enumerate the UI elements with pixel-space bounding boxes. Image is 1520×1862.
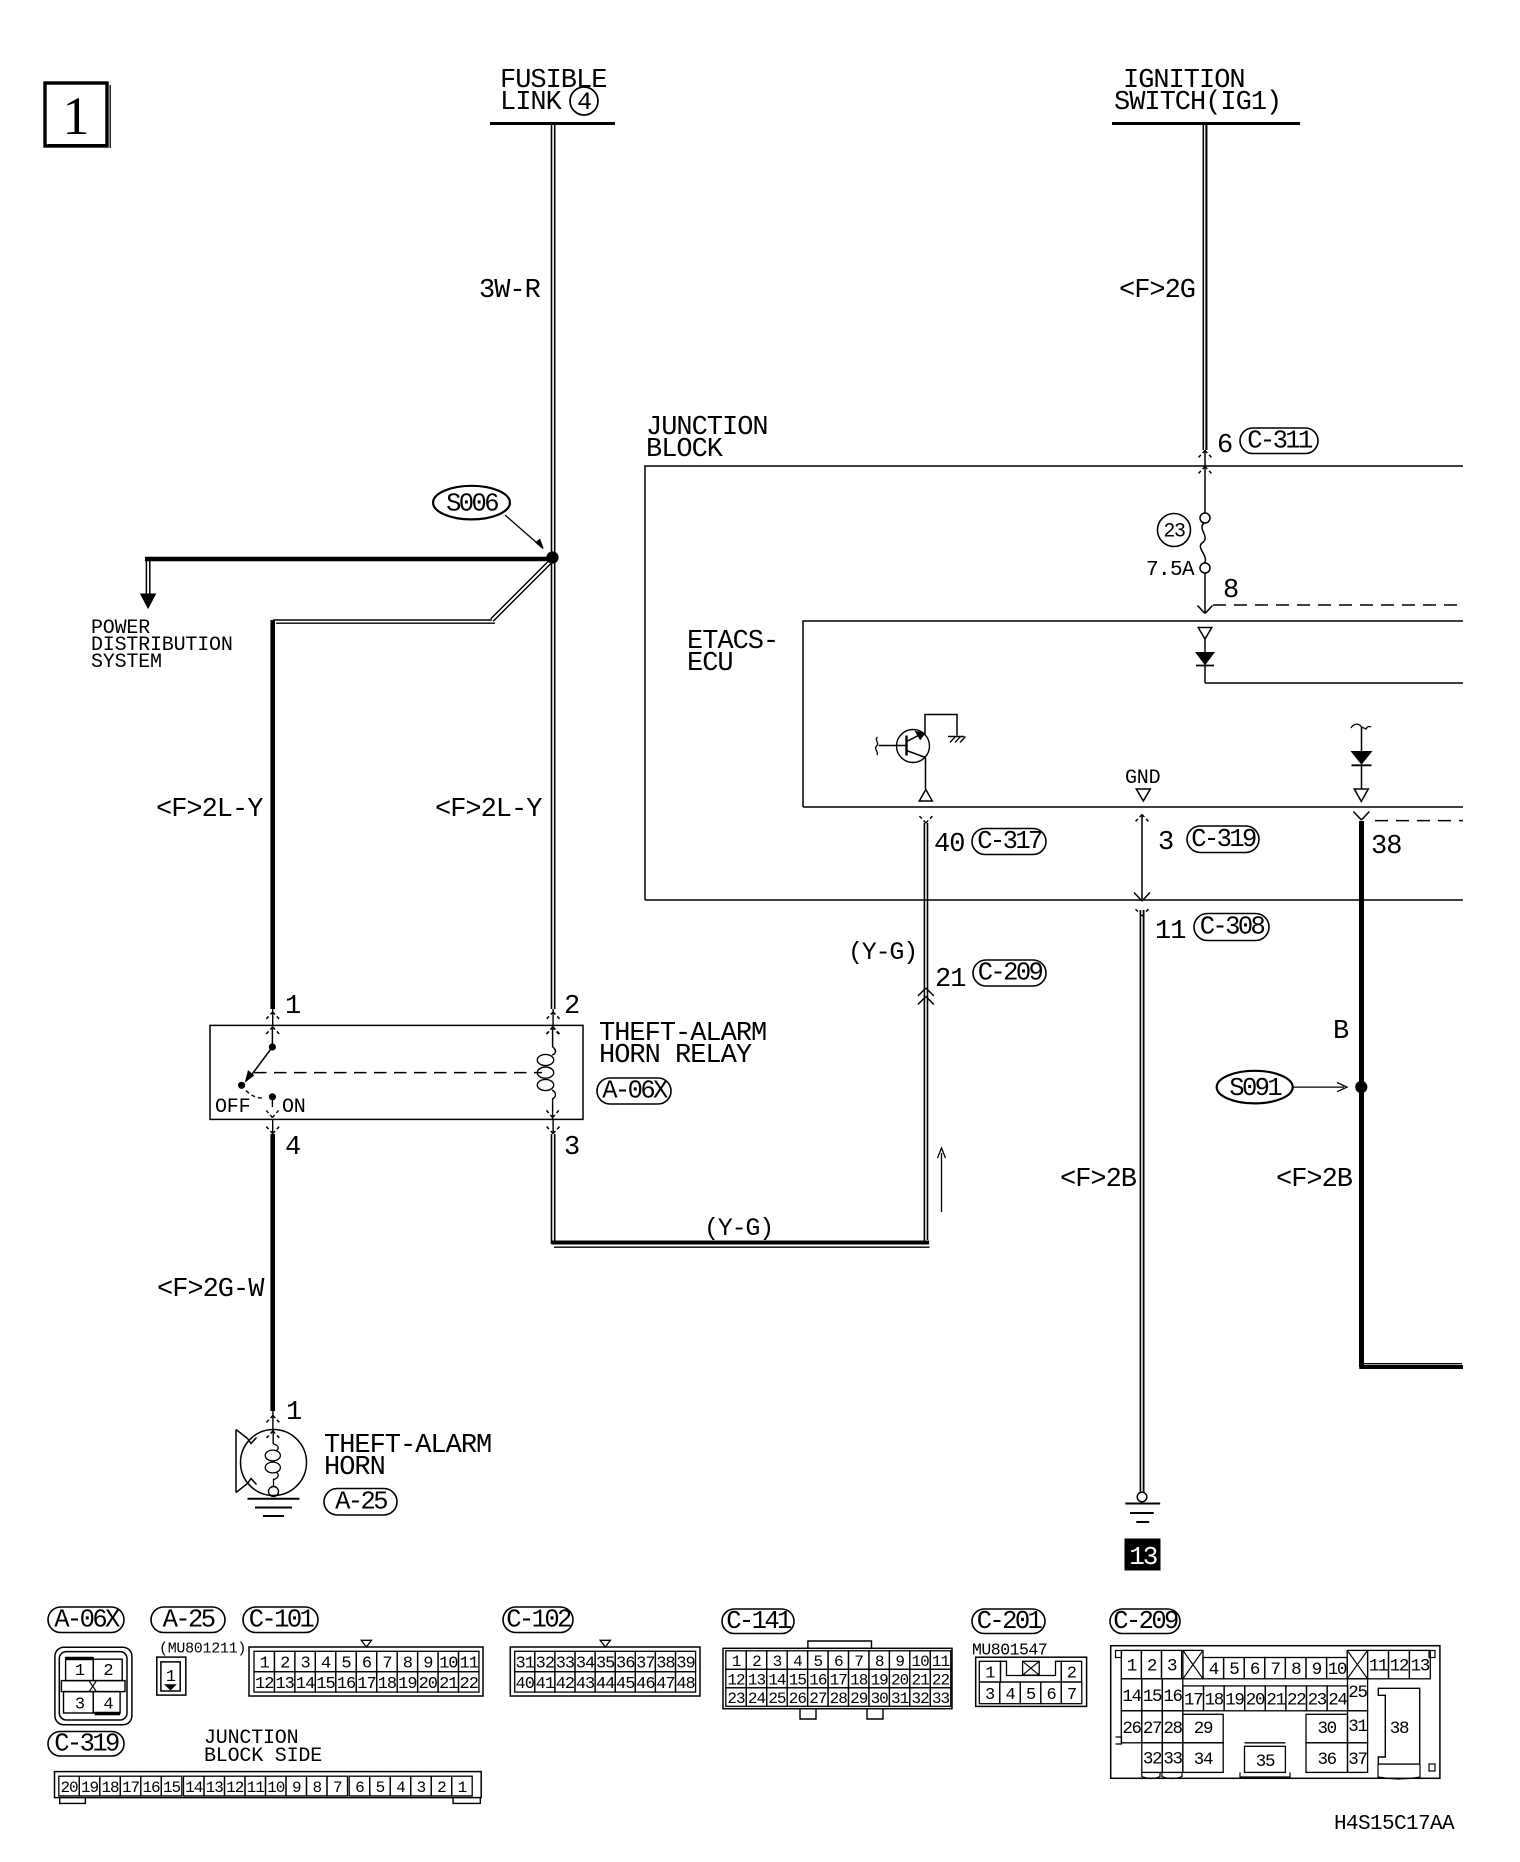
- svg-text:21: 21: [935, 965, 965, 995]
- ETACS-ECU label: [687, 627, 778, 679]
- svg-text:3: 3: [75, 1696, 85, 1715]
- svg-text:38: 38: [656, 1655, 675, 1674]
- connector C-319 stadium: [1187, 826, 1259, 853]
- svg-text:30: 30: [1317, 1719, 1336, 1739]
- svg-text:10: 10: [439, 1655, 458, 1674]
- ground G1 under C-308 wire: [1125, 1492, 1160, 1522]
- svg-text:C-209: C-209: [1113, 1607, 1178, 1636]
- theft-alarm horn relay label: [599, 1019, 766, 1071]
- svg-text:2: 2: [103, 1662, 112, 1681]
- svg-text:10: 10: [911, 1653, 929, 1671]
- svg-text:3: 3: [1167, 1657, 1177, 1677]
- svg-text:17: 17: [357, 1675, 375, 1694]
- svg-text:36: 36: [616, 1655, 635, 1674]
- svg-text:15: 15: [163, 1779, 181, 1797]
- svg-text:20: 20: [419, 1675, 438, 1694]
- connector C-141 drawing: [723, 1641, 952, 1719]
- svg-text:6: 6: [362, 1655, 372, 1674]
- transistor collector wire to chassis ground: [925, 715, 966, 743]
- svg-text:5: 5: [814, 1653, 823, 1671]
- connector A-25 stadium at horn: [324, 1489, 397, 1516]
- svg-text:7: 7: [333, 1779, 342, 1797]
- svg-text:18: 18: [378, 1675, 397, 1694]
- svg-text:11: 11: [247, 1779, 265, 1797]
- svg-text:(Y-G): (Y-G): [704, 1214, 773, 1243]
- pin 40 crossing chevron: [918, 815, 926, 824]
- connector C-209 crossing double chevron: [918, 988, 934, 1005]
- svg-text:5: 5: [1026, 1686, 1036, 1705]
- connector label C-102 stadium: [503, 1607, 573, 1633]
- svg-text:10: 10: [267, 1779, 285, 1797]
- ignition switch bus bar: [1112, 122, 1300, 125]
- svg-text:33: 33: [932, 1690, 950, 1708]
- svg-text:23: 23: [727, 1690, 745, 1708]
- svg-text:1: 1: [732, 1653, 741, 1671]
- theft-alarm horn label: [324, 1431, 491, 1483]
- svg-text:1: 1: [285, 992, 300, 1022]
- svg-text:22: 22: [460, 1675, 478, 1694]
- connector label C-101 stadium: [243, 1607, 318, 1633]
- svg-text:37: 37: [636, 1655, 654, 1674]
- svg-text:6: 6: [355, 1779, 364, 1797]
- theft-alarm horn relay box: [210, 1025, 583, 1119]
- svg-text:1: 1: [260, 1655, 270, 1674]
- svg-text:3W-R: 3W-R: [479, 276, 541, 306]
- svg-text:7: 7: [1067, 1686, 1076, 1705]
- svg-text:1: 1: [75, 1662, 85, 1681]
- connector C-319 junction block side drawing: [55, 1772, 482, 1804]
- svg-text:1: 1: [63, 86, 90, 146]
- svg-text:6: 6: [834, 1653, 843, 1671]
- svg-text:22: 22: [932, 1672, 950, 1690]
- svg-text:3: 3: [1158, 828, 1173, 858]
- wire (F)2L-Y thick left branch to relay pin 1: [270, 620, 275, 1009]
- svg-text:SWITCH(IG1): SWITCH(IG1): [1114, 88, 1281, 118]
- relay pin 1 crossing chevrons: [265, 1009, 281, 1036]
- connector label C-201 stadium: [972, 1609, 1045, 1634]
- fuse 23 circle label: [1158, 514, 1191, 547]
- pin 38 output triangle: [1354, 789, 1368, 802]
- connector label A-06X stadium: [48, 1607, 124, 1633]
- svg-text:C-319: C-319: [54, 1729, 119, 1758]
- svg-text:32: 32: [536, 1655, 554, 1674]
- dashed line at pin 8: [1213, 604, 1463, 606]
- horizontal double wire to left branch: [273, 620, 495, 623]
- junction block side label: [204, 1727, 322, 1768]
- theft-alarm horn symbol: [236, 1430, 307, 1497]
- ignition switch label: [1114, 66, 1281, 118]
- svg-text:21: 21: [1266, 1690, 1285, 1710]
- svg-text:C-209: C-209: [978, 959, 1043, 988]
- splice S091: [1217, 1071, 1347, 1104]
- svg-text:6: 6: [1217, 431, 1232, 461]
- svg-text:1: 1: [1127, 1657, 1137, 1677]
- svg-text:28: 28: [830, 1690, 848, 1708]
- svg-text:35: 35: [596, 1655, 615, 1674]
- svg-text:2: 2: [752, 1653, 761, 1671]
- connector C-209 drawing: [1111, 1646, 1440, 1779]
- svg-text:4: 4: [285, 1133, 300, 1163]
- svg-text:26: 26: [789, 1690, 807, 1708]
- svg-text:5: 5: [341, 1655, 351, 1674]
- svg-text:25: 25: [768, 1690, 786, 1708]
- junction block label: [646, 413, 768, 465]
- svg-text:29: 29: [1194, 1719, 1213, 1739]
- svg-text:8: 8: [403, 1655, 413, 1674]
- svg-text:(MU801211): (MU801211): [159, 1641, 246, 1658]
- svg-text:7: 7: [1270, 1660, 1280, 1680]
- svg-text:30: 30: [871, 1690, 889, 1708]
- svg-text:16: 16: [809, 1672, 827, 1690]
- wire (Y-G) horizontal run: [552, 1243, 930, 1248]
- svg-text:BLOCK: BLOCK: [646, 435, 724, 465]
- svg-text:HORN RELAY: HORN RELAY: [599, 1041, 752, 1071]
- connector A-06X stadium at relay: [597, 1078, 671, 1104]
- connector label C-141 stadium: [722, 1609, 794, 1634]
- svg-text:34: 34: [1194, 1750, 1213, 1770]
- C-319 pass-through arrow pin 3: [1134, 815, 1150, 917]
- svg-text:4: 4: [396, 1779, 405, 1797]
- svg-text:15: 15: [316, 1675, 335, 1694]
- svg-text:C-317: C-317: [977, 827, 1042, 856]
- connector label A-25 stadium: [151, 1607, 225, 1633]
- svg-text:14: 14: [1122, 1687, 1141, 1707]
- relay coil: [537, 1025, 555, 1119]
- connector C-308 stadium: [1194, 914, 1269, 941]
- connector A-06X drawing: [55, 1647, 132, 1725]
- svg-text:11: 11: [1369, 1657, 1388, 1677]
- svg-text:B: B: [1333, 1017, 1349, 1047]
- svg-text:C-308: C-308: [1200, 913, 1265, 942]
- svg-text:18: 18: [101, 1779, 119, 1797]
- svg-text:BLOCK SIDE: BLOCK SIDE: [204, 1745, 322, 1768]
- svg-text:19: 19: [1225, 1690, 1244, 1710]
- svg-text:23: 23: [1308, 1690, 1327, 1710]
- junction dot at S091: [1356, 1081, 1367, 1092]
- wire (F)2G ignition to junction block: [1203, 125, 1206, 513]
- svg-text:47: 47: [656, 1675, 674, 1694]
- svg-text:16: 16: [337, 1675, 356, 1694]
- svg-text:2: 2: [1067, 1665, 1076, 1684]
- wire 3W-R from fusible link to S006 and relay pin 2: [552, 125, 555, 1009]
- svg-text:8: 8: [312, 1779, 321, 1797]
- junction block box: [645, 466, 1463, 900]
- fuse output line with arrow into ETACS: [1198, 573, 1213, 614]
- svg-text:1: 1: [286, 1398, 301, 1428]
- svg-text:5: 5: [1229, 1660, 1239, 1680]
- svg-text:12: 12: [255, 1675, 273, 1694]
- svg-text:4: 4: [1209, 1660, 1219, 1680]
- svg-text:(Y-G): (Y-G): [848, 938, 917, 967]
- GND output triangle: [1136, 789, 1150, 801]
- svg-text:14: 14: [185, 1779, 203, 1797]
- svg-text:20: 20: [1246, 1690, 1265, 1710]
- svg-text:S091: S091: [1229, 1074, 1282, 1103]
- svg-text:32: 32: [911, 1690, 929, 1708]
- svg-text:37: 37: [1348, 1750, 1367, 1770]
- svg-text:8: 8: [1291, 1660, 1301, 1680]
- svg-text:19: 19: [871, 1672, 889, 1690]
- svg-text:5: 5: [376, 1779, 385, 1797]
- svg-text:16: 16: [1163, 1687, 1182, 1707]
- svg-text:10: 10: [1328, 1660, 1347, 1680]
- svg-text:4: 4: [1005, 1686, 1015, 1705]
- svg-text:38: 38: [1390, 1719, 1409, 1739]
- svg-text:25: 25: [1348, 1683, 1367, 1703]
- svg-text:3: 3: [301, 1655, 311, 1674]
- svg-text:<F>2G-W: <F>2G-W: [157, 1275, 265, 1305]
- relay pin 3 crossing chevron: [545, 1120, 561, 1135]
- svg-text:44: 44: [596, 1675, 615, 1694]
- svg-text:3: 3: [985, 1686, 995, 1705]
- svg-text:24: 24: [1328, 1690, 1347, 1710]
- svg-text:3: 3: [564, 1133, 579, 1163]
- svg-text:2: 2: [437, 1779, 446, 1797]
- wire from diode D1 to right edge: [1205, 682, 1463, 684]
- svg-text:39: 39: [676, 1655, 695, 1674]
- pin 38 crossing chevron: [1353, 812, 1361, 821]
- svg-text:9: 9: [895, 1653, 904, 1671]
- svg-text:13: 13: [748, 1672, 766, 1690]
- connector C-201 drawing: [972, 1641, 1087, 1707]
- svg-text:46: 46: [636, 1675, 655, 1694]
- svg-text:2: 2: [564, 992, 579, 1022]
- svg-text:2: 2: [280, 1655, 289, 1674]
- svg-text:C-141: C-141: [726, 1607, 792, 1636]
- svg-text:38: 38: [1371, 832, 1401, 862]
- svg-text:9: 9: [292, 1779, 301, 1797]
- flow direction arrow near C-209 wire: [938, 1148, 946, 1212]
- wire (F)2B ground wire C-308: [1140, 910, 1143, 1492]
- fusible link label: [500, 66, 606, 118]
- wire (Y-G) relay pin 3 verticals: [552, 1134, 555, 1244]
- svg-text:42: 42: [556, 1675, 574, 1694]
- wire (Y-G) pin 40 to relay pin 3, vertical run: [924, 823, 927, 1243]
- connector A-25 drawing: [157, 1641, 246, 1696]
- svg-text:4: 4: [793, 1653, 802, 1671]
- svg-text:43: 43: [576, 1675, 595, 1694]
- connector C-101 drawing: [249, 1640, 483, 1696]
- svg-text:HORN: HORN: [324, 1453, 385, 1483]
- svg-text:C-311: C-311: [1247, 426, 1313, 455]
- pin 8 input triangle: [1198, 628, 1212, 640]
- svg-text:4: 4: [321, 1655, 331, 1674]
- svg-text:32: 32: [1143, 1750, 1162, 1770]
- svg-text:11: 11: [1155, 917, 1185, 947]
- svg-text:A-06X: A-06X: [54, 1605, 120, 1634]
- svg-text:15: 15: [789, 1672, 807, 1690]
- connector crossing C-311 chevrons: [1197, 451, 1213, 476]
- svg-text:7: 7: [382, 1655, 391, 1674]
- svg-text:A-06X: A-06X: [602, 1077, 668, 1106]
- svg-text:C-319: C-319: [1191, 825, 1256, 854]
- svg-text:28: 28: [1163, 1719, 1182, 1739]
- transistor Q1: [876, 730, 930, 763]
- diagonal double wire from S006: [491, 557, 553, 619]
- svg-text:31: 31: [1348, 1717, 1367, 1737]
- svg-text:<F>2L-Y: <F>2L-Y: [156, 795, 263, 825]
- svg-text:9: 9: [423, 1655, 433, 1674]
- fusible link bus bar: [490, 122, 615, 125]
- power distribution system label: [91, 617, 233, 674]
- svg-text:LINK: LINK: [500, 88, 563, 118]
- svg-text:1: 1: [166, 1668, 176, 1687]
- connector label C-209 stadium: [1110, 1609, 1180, 1634]
- svg-text:4: 4: [577, 88, 591, 117]
- svg-text:GND: GND: [1125, 767, 1160, 790]
- svg-text:19: 19: [398, 1675, 417, 1694]
- svg-text:ON: ON: [282, 1096, 306, 1119]
- svg-text:21: 21: [439, 1675, 458, 1694]
- diode D2 with cut wire at pin 38: [1351, 724, 1372, 788]
- svg-text:A-25: A-25: [335, 1487, 387, 1516]
- connector C-317 stadium: [972, 829, 1046, 855]
- arrow to power distribution system: [141, 561, 156, 608]
- svg-text:1: 1: [458, 1779, 467, 1797]
- svg-text:22: 22: [1287, 1690, 1306, 1710]
- ground reference 13 box: [1125, 1539, 1160, 1572]
- ETACS-ECU box: [803, 621, 1463, 807]
- connector C-209 stadium at wire: [973, 960, 1046, 986]
- svg-text:C-201: C-201: [977, 1607, 1043, 1636]
- svg-text:7.5A: 7.5A: [1146, 559, 1195, 582]
- svg-text:2: 2: [1147, 1657, 1157, 1677]
- svg-text:ECU: ECU: [687, 649, 733, 679]
- svg-text:13: 13: [275, 1675, 294, 1694]
- svg-text:9: 9: [1312, 1660, 1322, 1680]
- svg-text:13: 13: [1129, 1542, 1157, 1572]
- svg-text:21: 21: [911, 1672, 929, 1690]
- page number box 1: [45, 83, 110, 148]
- relay switch contact from pin 1: [239, 1025, 279, 1117]
- svg-text:3: 3: [773, 1653, 782, 1671]
- svg-text:17: 17: [1184, 1690, 1203, 1710]
- svg-text:8: 8: [875, 1653, 884, 1671]
- svg-text:41: 41: [536, 1675, 555, 1694]
- svg-text:48: 48: [676, 1675, 695, 1694]
- svg-text:12: 12: [1390, 1657, 1409, 1677]
- svg-text:18: 18: [1205, 1690, 1224, 1710]
- svg-text:17: 17: [122, 1779, 140, 1797]
- svg-text:45: 45: [616, 1675, 635, 1694]
- svg-text:A-25: A-25: [163, 1605, 215, 1634]
- svg-text:11: 11: [460, 1655, 479, 1674]
- relay pin 2 chevron inside: [546, 1027, 553, 1035]
- junction dot at S006: [547, 552, 558, 563]
- svg-text:34: 34: [576, 1655, 595, 1674]
- svg-text:18: 18: [850, 1672, 868, 1690]
- svg-text:20: 20: [60, 1779, 78, 1797]
- svg-text:3: 3: [417, 1779, 426, 1797]
- svg-text:H4S15C17AA: H4S15C17AA: [1334, 1813, 1455, 1836]
- connector label C-319 stadium: [48, 1732, 124, 1757]
- svg-text:33: 33: [556, 1655, 575, 1674]
- svg-text:7: 7: [854, 1653, 863, 1671]
- connector C-102 drawing: [510, 1640, 700, 1696]
- svg-text:<F>2L-Y: <F>2L-Y: [435, 795, 542, 825]
- diode D1 below pin 8: [1196, 639, 1214, 683]
- svg-text:26: 26: [1122, 1719, 1141, 1739]
- wire (F)2B pin 38 thick run: [1359, 821, 1463, 1367]
- svg-text:19: 19: [81, 1779, 99, 1797]
- svg-text:13: 13: [1411, 1657, 1430, 1677]
- svg-text:35: 35: [1256, 1752, 1275, 1772]
- relay pin 2 crossing chevrons: [545, 1009, 561, 1036]
- thick feed wire to power distribution: [145, 557, 551, 562]
- svg-text:C-102: C-102: [506, 1605, 571, 1634]
- fuse symbol: [1200, 513, 1210, 573]
- horn pin 1 crossing chevrons: [265, 1411, 281, 1439]
- relay pin 3 chevron inside: [546, 1110, 553, 1118]
- svg-text:1: 1: [985, 1665, 995, 1684]
- connector C-311 stadium: [1240, 428, 1318, 454]
- svg-text:29: 29: [850, 1690, 868, 1708]
- dashed line at pin 38: [1375, 820, 1463, 822]
- ground under theft-alarm horn: [248, 1499, 300, 1516]
- splice S006: [433, 486, 543, 549]
- svg-text:27: 27: [1143, 1719, 1162, 1739]
- svg-text:8: 8: [1223, 576, 1238, 606]
- relay mechanical link dashed: [254, 1072, 542, 1074]
- relay pin 4 crossing chevron: [265, 1120, 281, 1135]
- svg-text:40: 40: [934, 830, 964, 860]
- svg-text:33: 33: [1163, 1750, 1182, 1770]
- svg-text:14: 14: [768, 1672, 786, 1690]
- svg-text:36: 36: [1317, 1750, 1336, 1770]
- svg-text:OFF: OFF: [215, 1096, 250, 1119]
- svg-text:12: 12: [226, 1779, 244, 1797]
- svg-text:4: 4: [103, 1696, 113, 1715]
- svg-text:14: 14: [296, 1675, 315, 1694]
- svg-text:<F>2B: <F>2B: [1060, 1165, 1137, 1195]
- svg-text:20: 20: [891, 1672, 909, 1690]
- svg-text:S006: S006: [446, 490, 498, 519]
- svg-text:<F>2G: <F>2G: [1119, 276, 1195, 306]
- svg-text:31: 31: [516, 1655, 535, 1674]
- svg-text:12: 12: [727, 1672, 745, 1690]
- pin 40 output triangle: [919, 790, 932, 802]
- svg-text:40: 40: [516, 1675, 535, 1694]
- svg-text:15: 15: [1143, 1687, 1162, 1707]
- svg-text:C-101: C-101: [249, 1605, 315, 1634]
- svg-text:27: 27: [809, 1690, 827, 1708]
- wire (F)2G-W relay pin 4 to horn: [270, 1134, 275, 1411]
- svg-text:24: 24: [748, 1690, 766, 1708]
- svg-text:6: 6: [1046, 1686, 1056, 1705]
- transistor emitter wire to pin 40: [925, 758, 927, 790]
- svg-text:16: 16: [142, 1779, 160, 1797]
- svg-text:6: 6: [1250, 1660, 1260, 1680]
- svg-text:<F>2B: <F>2B: [1276, 1165, 1353, 1195]
- svg-text:13: 13: [206, 1779, 224, 1797]
- svg-text:23: 23: [1163, 521, 1185, 544]
- svg-text:31: 31: [891, 1690, 909, 1708]
- svg-text:17: 17: [830, 1672, 848, 1690]
- svg-text:SYSTEM: SYSTEM: [91, 651, 162, 674]
- svg-text:11: 11: [932, 1653, 950, 1671]
